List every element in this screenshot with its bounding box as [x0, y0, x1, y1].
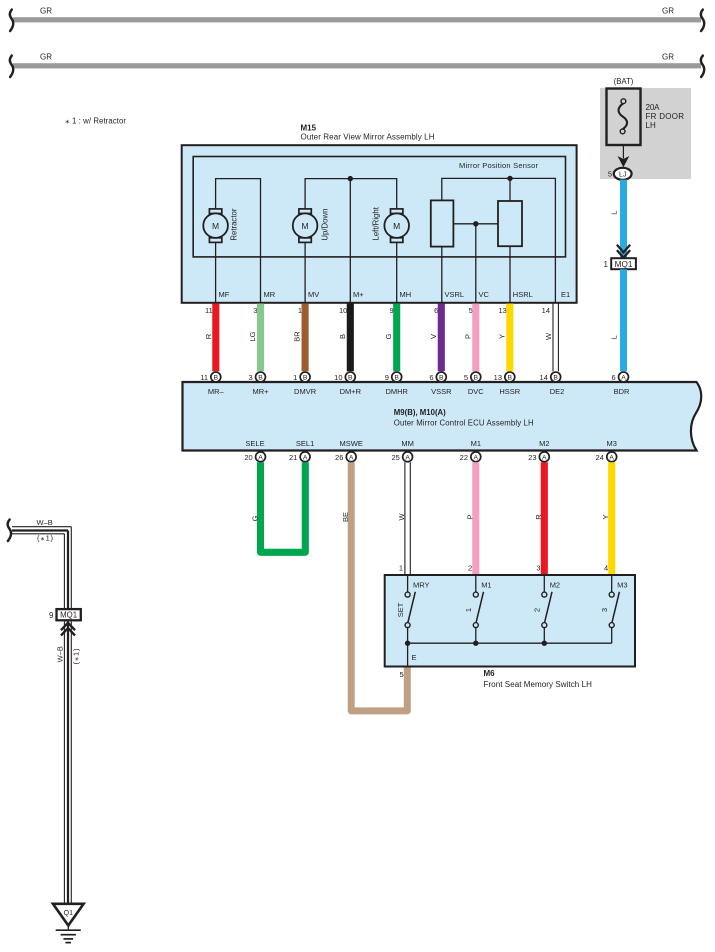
svg-text:P: P	[465, 514, 474, 519]
node VC junction	[473, 221, 478, 226]
fuse block shading	[600, 88, 691, 179]
svg-text:BR: BR	[293, 331, 302, 342]
svg-text:MQ1: MQ1	[615, 260, 633, 269]
connector MQ1 pin 9	[49, 609, 81, 620]
svg-text:GR: GR	[662, 7, 674, 16]
svg-text:B: B	[258, 375, 263, 382]
wire P	[472, 304, 479, 372]
node bus junction 2	[542, 641, 547, 646]
svg-text:3: 3	[249, 373, 253, 382]
wire switch common bus	[408, 642, 612, 644]
pin 3 B MR+	[256, 372, 266, 382]
break symbol left of GR bus 1	[10, 10, 13, 31]
connector MQ1 pin 1	[604, 258, 636, 269]
wire motor2 top to motor3 top	[305, 179, 397, 209]
svg-text:LJ: LJ	[619, 172, 626, 179]
wire GR bus 2	[13, 53, 701, 69]
svg-text:W–B: W–B	[56, 646, 65, 662]
wire BR	[302, 304, 309, 372]
connector chevron MQ1	[617, 245, 630, 258]
sensor element vertical	[431, 200, 454, 246]
svg-text:1: 1	[298, 306, 302, 315]
svg-text:14: 14	[540, 373, 548, 382]
svg-text:M1: M1	[481, 581, 491, 590]
svg-text:B: B	[439, 375, 444, 382]
pin 6 A BDR	[619, 372, 629, 382]
break symbol left of GR bus 2	[10, 56, 13, 77]
svg-text:1: 1	[604, 260, 609, 269]
svg-text:E1: E1	[561, 290, 570, 299]
svg-text:Mirror Position Sensor: Mirror Position Sensor	[459, 161, 539, 170]
wire colour labels	[204, 331, 553, 342]
svg-text:M: M	[302, 221, 309, 231]
wire Y M3	[608, 462, 615, 575]
svg-text:6: 6	[429, 373, 433, 382]
svg-text:GR: GR	[40, 53, 52, 62]
svg-text:B: B	[508, 375, 513, 382]
svg-text:Y: Y	[497, 334, 506, 339]
svg-text:FR DOOR: FR DOOR	[646, 112, 685, 121]
svg-text:VC: VC	[479, 290, 490, 299]
svg-text:Y: Y	[601, 514, 610, 519]
wire HSRL	[509, 246, 511, 303]
wire GR bus 1	[13, 7, 701, 23]
svg-text:9: 9	[49, 611, 54, 620]
svg-text:SEL1: SEL1	[296, 439, 314, 448]
wire motor2 bottom MV	[304, 242, 306, 303]
svg-text:M2: M2	[550, 581, 560, 590]
svg-text:G: G	[384, 333, 393, 339]
svg-text:MM: MM	[401, 439, 414, 448]
fuse 20A FR DOOR LH	[607, 89, 685, 146]
svg-text:2: 2	[533, 608, 542, 612]
motor M2 Up/Down	[293, 209, 329, 243]
svg-text:11: 11	[205, 306, 213, 315]
ground Q1	[53, 904, 84, 943]
svg-text:9: 9	[385, 373, 389, 382]
component M6 Front Seat Memory Switch LH	[385, 575, 635, 689]
switch 1	[464, 575, 492, 643]
svg-text:L: L	[610, 335, 619, 339]
pin numbers M15 bottom	[205, 306, 550, 315]
svg-text:MR: MR	[264, 290, 276, 299]
node bus junction SET	[405, 641, 410, 646]
svg-text:E: E	[412, 653, 417, 662]
svg-text:HSRL: HSRL	[513, 290, 533, 299]
motor M3 Left/Right	[372, 206, 410, 242]
svg-text:Retractor: Retractor	[229, 208, 238, 240]
svg-text:SELE: SELE	[245, 439, 264, 448]
svg-text:Outer Rear View Mirror Assembl: Outer Rear View Mirror Assembly LH	[301, 132, 435, 141]
wire G U-shape SELE to SEL1	[261, 462, 306, 552]
svg-text:1 : w/ Retractor: 1 : w/ Retractor	[72, 116, 126, 125]
svg-text:MF: MF	[219, 290, 230, 299]
switch 2	[533, 575, 561, 643]
svg-text:A: A	[474, 455, 479, 462]
svg-text:A: A	[542, 455, 547, 462]
svg-text:22: 22	[460, 453, 468, 462]
svg-text:A: A	[621, 375, 626, 382]
wire VSRL	[441, 247, 443, 304]
svg-text:Up/Down: Up/Down	[320, 209, 329, 241]
svg-text:MR–: MR–	[208, 387, 225, 396]
svg-text:11: 11	[200, 373, 208, 382]
svg-text:VSRL: VSRL	[445, 290, 465, 299]
pin labels M15 bottom	[219, 290, 571, 299]
wire sensor middle link	[453, 223, 498, 225]
wire P M1	[472, 462, 479, 575]
wire E pin	[407, 643, 409, 666]
wire motor1 top loop to MR	[216, 179, 261, 304]
svg-text:MV: MV	[308, 290, 319, 299]
svg-text:M: M	[212, 221, 219, 231]
svg-text:A: A	[303, 455, 308, 462]
svg-text:MQ1: MQ1	[60, 611, 77, 620]
svg-text:24: 24	[596, 453, 604, 462]
svg-text:25: 25	[391, 453, 399, 462]
node bus junction 1	[473, 641, 478, 646]
svg-text:M3: M3	[617, 581, 627, 590]
svg-text:M1: M1	[471, 439, 481, 448]
svg-text:V: V	[429, 334, 438, 339]
svg-text:W–B: W–B	[37, 518, 53, 527]
svg-text:10: 10	[334, 373, 342, 382]
svg-text:MRY: MRY	[413, 581, 430, 590]
svg-text:3: 3	[253, 306, 257, 315]
svg-text:DVC: DVC	[468, 387, 484, 396]
pin 11 B MR-	[211, 372, 221, 382]
svg-text:6: 6	[612, 373, 616, 382]
svg-text:1: 1	[464, 608, 473, 612]
svg-text:5: 5	[464, 373, 468, 382]
svg-text:(∗1): (∗1)	[71, 648, 80, 665]
svg-text:Front Seat Memory Switch LH: Front Seat Memory Switch LH	[484, 680, 593, 689]
svg-text:LH: LH	[646, 121, 656, 130]
svg-text:3: 3	[536, 564, 540, 573]
svg-text:B: B	[338, 334, 347, 339]
svg-text:20A: 20A	[646, 103, 661, 112]
svg-text:2: 2	[468, 564, 472, 573]
svg-text:A: A	[609, 455, 614, 462]
wire LG	[257, 304, 264, 372]
svg-text:(∗1): (∗1)	[37, 534, 54, 543]
wire G	[393, 304, 400, 372]
wire motor3 bottom MH	[396, 242, 398, 303]
pin 13 B HSSR	[505, 372, 515, 382]
wire M+	[349, 179, 351, 304]
svg-text:21: 21	[289, 453, 297, 462]
inner box mirror position sensor	[193, 157, 565, 257]
svg-text:LG: LG	[248, 331, 257, 341]
svg-text:B: B	[214, 375, 219, 382]
wire B	[347, 304, 354, 372]
wire W double line	[553, 304, 558, 372]
svg-text:DE2: DE2	[550, 387, 565, 396]
svg-text:DMVR: DMVR	[294, 387, 317, 396]
svg-text:4: 4	[604, 564, 608, 573]
pin 14 B DE2	[551, 372, 561, 382]
svg-text:M2: M2	[539, 439, 549, 448]
pin 6 B VSSR	[436, 372, 446, 382]
svg-text:9: 9	[390, 306, 394, 315]
svg-text:14: 14	[542, 306, 550, 315]
svg-text:1: 1	[293, 373, 297, 382]
svg-text:R: R	[534, 514, 543, 520]
svg-text:A: A	[405, 455, 410, 462]
pin 9 B DMHR	[392, 372, 402, 382]
svg-text:3: 3	[600, 608, 609, 612]
svg-text:DMHR: DMHR	[385, 387, 408, 396]
break symbol W-B	[8, 520, 11, 541]
svg-text:23: 23	[528, 453, 536, 462]
svg-text:P: P	[463, 334, 472, 339]
pin 1 B DMVR	[300, 372, 310, 382]
connector pins ECU top row	[200, 372, 630, 396]
svg-text:6: 6	[434, 306, 438, 315]
wire R	[212, 304, 219, 372]
wire W-B ground vertical	[64, 622, 71, 904]
svg-text:GR: GR	[662, 53, 674, 62]
svg-text:Q1: Q1	[64, 910, 73, 917]
wire VC	[475, 224, 477, 304]
svg-text:20: 20	[244, 453, 252, 462]
wire W MM double line	[405, 462, 410, 575]
svg-text:B: B	[474, 375, 479, 382]
pin numbers M6 top	[399, 564, 608, 573]
switch SET	[396, 575, 430, 643]
svg-text:Left/Right: Left/Right	[372, 206, 381, 240]
component M15 Outer Rear View Mirror Assembly LH	[182, 124, 577, 303]
wire Y	[506, 304, 513, 372]
svg-text:W: W	[397, 513, 406, 521]
pin 10 B DM+R	[345, 372, 355, 382]
svg-text:HSSR: HSSR	[499, 387, 520, 396]
wire L blue lower	[620, 269, 627, 371]
svg-text:DM+R: DM+R	[340, 387, 362, 396]
wire sensor top bus	[442, 178, 556, 303]
svg-text:∗: ∗	[65, 118, 70, 125]
connector chevron up	[61, 623, 75, 636]
svg-text:Outer Mirror Control ECU Assem: Outer Mirror Control ECU Assembly LH	[394, 419, 534, 428]
wire BE MSWE to switch E	[351, 462, 407, 711]
wire motor1 bottom MF	[215, 242, 217, 303]
svg-text:5: 5	[469, 306, 473, 315]
svg-text:L: L	[610, 211, 619, 215]
wire W-B ground branch horizontal	[12, 527, 71, 609]
svg-text:MSWE: MSWE	[340, 439, 363, 448]
svg-text:A: A	[258, 455, 263, 462]
connector LJ pin 5	[608, 168, 632, 180]
break symbol right of GR bus 2	[701, 56, 704, 77]
svg-text:W: W	[544, 332, 553, 340]
svg-text:M+: M+	[353, 290, 364, 299]
svg-text:B: B	[553, 375, 558, 382]
svg-text:G: G	[250, 515, 259, 521]
motor M1 Retractor	[203, 208, 238, 242]
svg-text:10: 10	[339, 306, 347, 315]
svg-text:M6: M6	[484, 669, 496, 678]
component M9(B) M10(A) Outer Mirror Control ECU Assembly LH	[183, 382, 702, 451]
switch 3	[600, 575, 628, 643]
node M+ junction	[348, 176, 353, 181]
arrow	[618, 156, 630, 167]
wire R M2	[541, 462, 548, 575]
wire L blue upper	[620, 180, 627, 259]
svg-text:(BAT): (BAT)	[614, 77, 634, 86]
svg-text:B: B	[303, 375, 308, 382]
svg-text:SET: SET	[396, 602, 405, 617]
svg-text:MR+: MR+	[252, 387, 269, 396]
svg-text:M15: M15	[301, 124, 317, 133]
svg-text:B: B	[348, 375, 353, 382]
svg-text:MH: MH	[400, 290, 412, 299]
svg-text:BE: BE	[341, 512, 350, 522]
svg-text:A: A	[349, 455, 354, 462]
wire HSRL sensor stub	[509, 178, 511, 201]
connector pins ECU bottom row	[244, 439, 617, 462]
wire V	[438, 304, 445, 372]
svg-text:M: M	[393, 221, 400, 231]
svg-text:26: 26	[335, 453, 343, 462]
break symbol right of GR bus 1	[701, 10, 704, 31]
svg-text:VSSR: VSSR	[431, 387, 452, 396]
svg-text:13: 13	[498, 306, 506, 315]
svg-text:B: B	[394, 375, 399, 382]
svg-text:5: 5	[400, 670, 404, 679]
svg-text:BDR: BDR	[614, 387, 630, 396]
svg-text:5: 5	[608, 170, 612, 179]
svg-text:M9(B), M10(A): M9(B), M10(A)	[394, 408, 446, 417]
svg-text:R: R	[204, 333, 213, 339]
svg-text:13: 13	[494, 373, 502, 382]
node sensor junction	[507, 176, 512, 181]
svg-text:1: 1	[399, 564, 403, 573]
pin 5 B DVC	[471, 372, 481, 382]
sensor element horizontal	[498, 201, 522, 246]
wire fuse to connector LJ	[622, 145, 624, 159]
svg-text:M3: M3	[606, 439, 616, 448]
svg-text:GR: GR	[40, 7, 52, 16]
